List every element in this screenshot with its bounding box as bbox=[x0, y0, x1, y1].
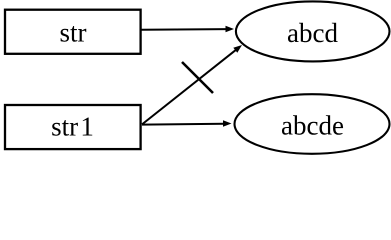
cross mark over old reference bbox=[182, 62, 213, 93]
box str bbox=[5, 10, 141, 54]
svg-text:str 1: str 1 bbox=[51, 112, 94, 142]
svg-text:str: str bbox=[60, 18, 87, 48]
svg-text:abcde: abcde bbox=[281, 111, 344, 141]
ellipse abcde bbox=[235, 94, 390, 154]
box str1 bbox=[5, 105, 141, 149]
ellipse abcd bbox=[236, 1, 390, 61]
arrow str to abcd bbox=[142, 26, 235, 33]
arrow str1 to abcd (old reference) bbox=[142, 45, 242, 124]
arrow str1 to abcde bbox=[142, 120, 232, 127]
svg-text:abcd: abcd bbox=[287, 18, 338, 48]
